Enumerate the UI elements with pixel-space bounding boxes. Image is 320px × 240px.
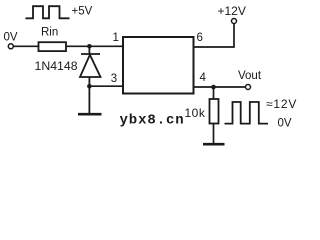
ground (left)	[78, 113, 102, 116]
wire: pin 4 to Vout	[194, 86, 246, 88]
wire: node down to resistor	[213, 87, 215, 99]
resistor Rin	[39, 42, 67, 51]
svg-text:3: 3	[111, 73, 117, 85]
input square-wave symbol	[26, 6, 70, 18]
wire: node to pin 3	[89, 85, 123, 87]
wire: Rin to pin 1	[66, 45, 123, 47]
svg-text:0V: 0V	[278, 118, 292, 130]
diode D1 (cathode up)	[80, 46, 101, 113]
wire: +12V to pin 6	[194, 24, 235, 48]
ground (right)	[203, 143, 225, 146]
+12V terminal	[232, 19, 237, 24]
resistor 10k	[210, 99, 219, 124]
svg-text:1N4148: 1N4148	[35, 59, 78, 73]
svg-text:Rin: Rin	[41, 27, 58, 39]
svg-text:6: 6	[197, 32, 203, 44]
Vout terminal	[246, 85, 251, 90]
svg-text:10k: 10k	[185, 106, 206, 120]
output square-wave symbol	[225, 102, 269, 124]
wire: resistor to ground	[213, 124, 215, 144]
svg-text:4: 4	[200, 72, 207, 84]
svg-text:≈12V: ≈12V	[266, 97, 297, 111]
svg-text:1: 1	[113, 32, 119, 44]
wire: input terminal to Rin	[13, 45, 38, 47]
op-amp U1 (IC box)	[123, 37, 194, 94]
svg-text:ybx8.cn: ybx8.cn	[120, 112, 185, 128]
node: pin 4 junction	[211, 85, 216, 90]
svg-text:Vout: Vout	[238, 70, 262, 82]
node: diode bottom junction	[87, 84, 92, 89]
node: diode top junction	[87, 44, 92, 49]
svg-text:+12V: +12V	[218, 4, 246, 18]
svg-text:+5V: +5V	[72, 6, 93, 18]
input terminal	[8, 44, 13, 49]
svg-text:0V: 0V	[4, 32, 18, 44]
